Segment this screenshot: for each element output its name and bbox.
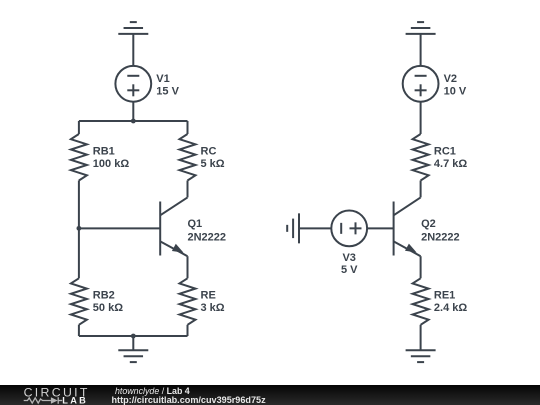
wire RC to collector [187, 181, 189, 198]
svg-text:2.4 kΩ: 2.4 kΩ [434, 302, 467, 314]
wire V1 to top node [132, 102, 134, 121]
resistor RC [180, 134, 196, 181]
wire bottom horizontal [79, 335, 188, 337]
ground (bottom right) [406, 350, 436, 362]
wire V2 to RC1 [420, 102, 422, 134]
wire RB1 to base node [78, 181, 80, 229]
svg-text:V1: V1 [156, 73, 169, 85]
svg-text:15 V: 15 V [156, 85, 179, 97]
wire emitter to RE1 [420, 256, 422, 278]
label V1 15 V [156, 73, 179, 98]
wire RE1 to ground [420, 325, 422, 351]
ground (top of V2) [406, 22, 436, 66]
wire top to RC [187, 121, 189, 134]
wire RE to bottom rail [187, 325, 189, 336]
CircuitLab logo [0, 385, 110, 405]
footer url text [112, 396, 266, 405]
wire base to transistor [79, 227, 160, 229]
label RE1 2.4 kOhm [434, 290, 467, 315]
wire top horizontal [79, 120, 188, 122]
transistor Q2 [394, 197, 421, 256]
svg-text:4.7 kΩ: 4.7 kΩ [434, 158, 467, 170]
label Q2 2N2222 [421, 218, 460, 244]
wire V3 to base of Q2 [367, 227, 394, 229]
svg-text:RB1: RB1 [93, 145, 115, 157]
label RC 5 kOhm [201, 145, 225, 170]
ground (top of V1) [118, 22, 148, 66]
svg-text:100 kΩ: 100 kΩ [93, 158, 130, 170]
wire top to RB1 [78, 121, 80, 134]
label Q1 2N2222 [188, 218, 227, 244]
voltage source V1 [115, 66, 151, 102]
resistor RC1 [413, 134, 429, 181]
label V2 10 V [444, 73, 467, 98]
label V3 5 V [341, 252, 358, 276]
label RE 3 kOhm [201, 290, 225, 315]
svg-text:Q2: Q2 [421, 218, 436, 230]
resistor RE [180, 278, 196, 325]
ground (bottom left) [118, 336, 148, 362]
svg-text:RE1: RE1 [434, 290, 455, 302]
svg-text:2N2222: 2N2222 [188, 231, 227, 243]
svg-text:50 kΩ: 50 kΩ [93, 302, 123, 314]
voltage source V2 [403, 66, 439, 102]
wire RC1 to collector [420, 181, 422, 198]
footer bar [0, 385, 540, 405]
resistor RB2 [71, 278, 87, 325]
label RB1 100 kOhm [93, 145, 130, 170]
svg-text:V2: V2 [444, 73, 457, 85]
wire RB2 to bottom rail [78, 325, 80, 336]
resistor RB1 [71, 134, 87, 181]
svg-text:Q1: Q1 [188, 218, 203, 230]
wire base node to RB2 [78, 228, 80, 278]
footer title text [115, 387, 190, 396]
svg-text:RC: RC [201, 145, 217, 157]
svg-text:V3: V3 [342, 252, 355, 264]
node base junction [77, 226, 82, 231]
svg-text:5 V: 5 V [341, 264, 358, 276]
node top junction [131, 119, 136, 124]
label RB2 50 kOhm [93, 290, 123, 315]
node bottom junction [131, 334, 136, 339]
svg-text:10 V: 10 V [444, 85, 467, 97]
voltage source V3 [331, 210, 367, 246]
transistor Q1 [160, 197, 187, 256]
resistor RE1 [413, 278, 429, 325]
ground (left of V3) [287, 213, 331, 243]
svg-text:3 kΩ: 3 kΩ [201, 302, 225, 314]
svg-text:5 kΩ: 5 kΩ [201, 158, 225, 170]
wire emitter to RE [187, 256, 189, 278]
svg-text:RC1: RC1 [434, 145, 456, 157]
svg-text:RB2: RB2 [93, 290, 115, 302]
svg-text:RE: RE [201, 290, 216, 302]
svg-text:LAB: LAB [62, 395, 88, 405]
label RC1 4.7 kOhm [434, 145, 467, 170]
svg-text:2N2222: 2N2222 [421, 231, 460, 243]
